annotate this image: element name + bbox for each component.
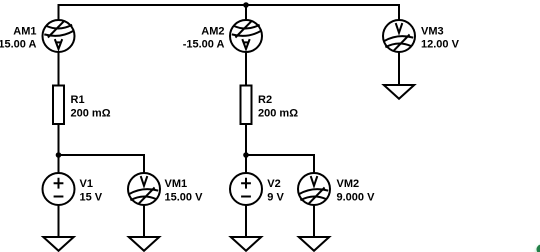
svg-text:VM1: VM1 [165, 178, 188, 190]
wire AM1 to R1 [58, 52, 60, 86]
svg-text:V2: V2 [267, 178, 280, 190]
wire R2 to node [245, 124, 247, 155]
wire node to V2 [245, 155, 247, 173]
voltage source V1 [43, 173, 75, 205]
resistor R2 [241, 86, 252, 125]
wire stub top bus to AM2 [245, 5, 247, 20]
svg-text:-15.00 A: -15.00 A [183, 39, 225, 51]
ground below VM3 [384, 85, 414, 99]
wire node to V1 [58, 155, 60, 173]
node junction below R2 [243, 152, 249, 158]
resistor R1 [53, 86, 64, 125]
svg-text:15.00 A: 15.00 A [0, 39, 37, 51]
svg-text:VM3: VM3 [421, 26, 444, 38]
voltage source V2 [230, 173, 262, 205]
svg-text:15.00 V: 15.00 V [165, 191, 204, 203]
ground below V2 [231, 237, 261, 251]
svg-text:200 mΩ: 200 mΩ [258, 108, 298, 120]
wire VM1 to ground [143, 205, 145, 237]
node junction on top bus above AM2 [243, 2, 249, 8]
wire node to VM2 [246, 155, 314, 173]
voltmeter VM1 [128, 173, 160, 205]
voltmeter VM2 [298, 173, 330, 205]
svg-text:R1: R1 [71, 94, 85, 106]
svg-text:AM2: AM2 [201, 26, 224, 38]
wire V1 to ground [58, 205, 60, 237]
svg-text:VM2: VM2 [337, 178, 360, 190]
voltmeter VM3 [383, 20, 415, 52]
svg-text:9 V: 9 V [267, 191, 284, 203]
ground below VM2 [299, 237, 329, 251]
svg-text:200 mΩ: 200 mΩ [71, 108, 111, 120]
wire top bus from AM1 corner to VM3 corner [59, 5, 400, 20]
svg-text:AM1: AM1 [13, 26, 36, 38]
ground below V1 [43, 237, 73, 251]
ammeter AM2 [230, 20, 262, 52]
wire node to VM1 [59, 155, 145, 173]
wire VM2 to ground [313, 205, 315, 237]
svg-text:12.00 V: 12.00 V [421, 39, 460, 51]
watermark green glyph bottom-right corner [532, 241, 540, 252]
svg-text:V1: V1 [80, 178, 93, 190]
ammeter AM1 [43, 20, 75, 52]
svg-text:15 V: 15 V [80, 191, 103, 203]
svg-text:R2: R2 [258, 94, 272, 106]
wire VM3 to ground [398, 52, 400, 85]
wire R1 to node [58, 124, 60, 155]
svg-text:9.000 V: 9.000 V [337, 191, 376, 203]
wire AM2 to R2 [245, 52, 247, 86]
node junction below R1 [56, 152, 62, 158]
ground below VM1 [129, 237, 159, 251]
wire V2 to ground [245, 205, 247, 237]
